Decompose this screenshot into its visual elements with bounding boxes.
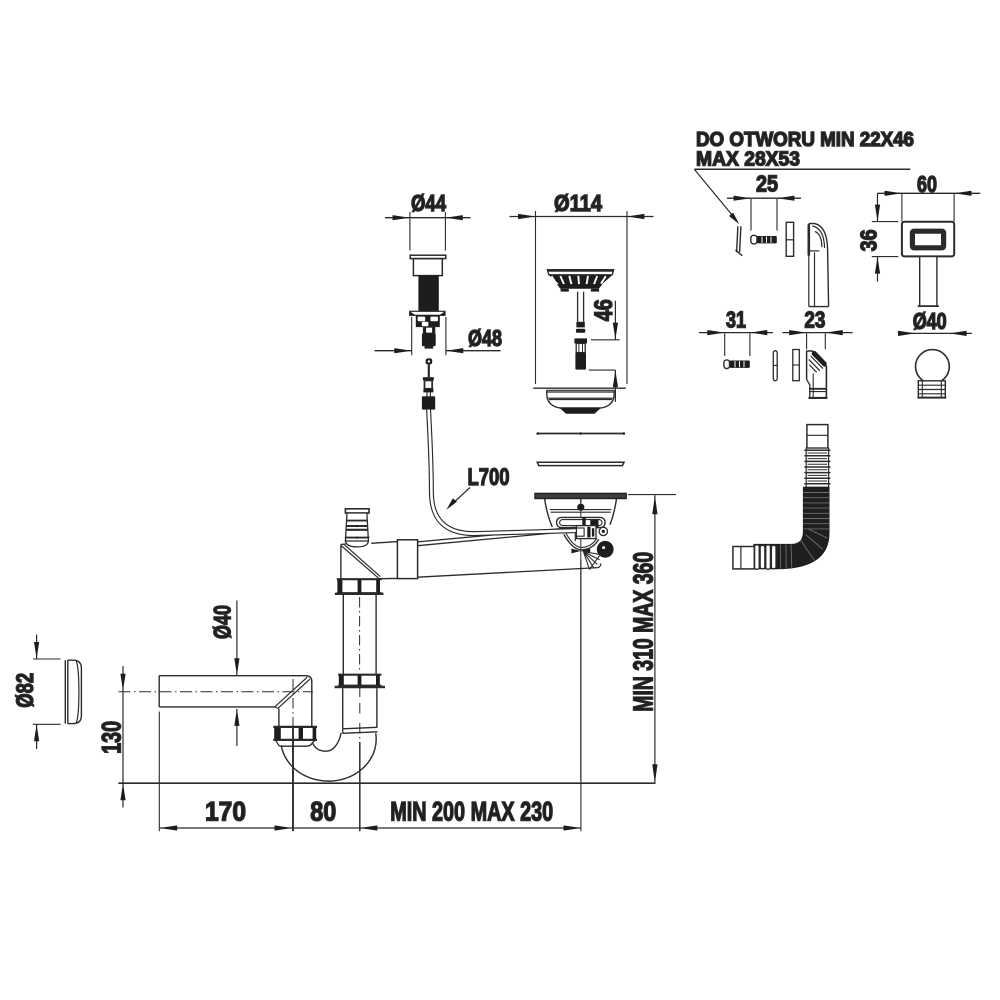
- gasket 1: [537, 432, 626, 435]
- compression nut lower: [335, 675, 385, 687]
- fixing plate small: [735, 226, 742, 256]
- trap inlet nut: [273, 727, 317, 746]
- washer plate 25: [786, 222, 793, 256]
- svg-text:31: 31: [726, 307, 746, 333]
- svg-text:MAX 28X53: MAX 28X53: [696, 149, 800, 171]
- dimension D82: [12, 635, 60, 750]
- riser tube: [343, 595, 376, 674]
- dimension D114: [510, 190, 654, 384]
- bottom dimension line: [160, 796, 581, 830]
- screw 25: [751, 235, 777, 244]
- svg-text:MIN 310 MAX 360: MIN 310 MAX 360: [627, 552, 658, 712]
- wall cap D82: [65, 660, 81, 723]
- dimension 23: [782, 307, 852, 350]
- svg-text:80: 80: [310, 796, 336, 826]
- overflow ball: [916, 350, 950, 398]
- overflow channel piece: [809, 223, 829, 306]
- dimension D40 right: [898, 308, 972, 336]
- u-trap left tube: [279, 681, 312, 727]
- svg-text:Ø40: Ø40: [913, 308, 947, 334]
- washer lens 31: [773, 351, 779, 381]
- dimension 60: [878, 171, 981, 222]
- outlet arm pipe: [371, 527, 601, 578]
- drain housing under sink: [545, 499, 617, 780]
- overflow cover pipe: [918, 257, 939, 307]
- svg-text:Ø44: Ø44: [411, 190, 446, 216]
- svg-text:36: 36: [856, 229, 882, 251]
- svg-text:Ø48: Ø48: [468, 325, 502, 351]
- u-trap right tube and bend: [281, 688, 377, 781]
- svg-text:23: 23: [804, 307, 825, 333]
- dimension 36: [856, 193, 899, 281]
- drain body exploded: [533, 388, 626, 414]
- svg-text:130: 130: [96, 721, 126, 754]
- dimension D40 left: [210, 601, 240, 747]
- cable L700: [429, 410, 576, 534]
- horizontal inlet pipe: [159, 676, 312, 709]
- overflow cover rectangle: [902, 222, 954, 257]
- flexible hose end fitting: [733, 547, 754, 569]
- svg-text:170: 170: [205, 796, 246, 826]
- dimension 31: [699, 307, 773, 356]
- svg-text:L700: L700: [468, 464, 510, 491]
- basket pin plug: [574, 338, 587, 369]
- flexible hose end ribs: [755, 545, 776, 569]
- note DO OTWORU: [694, 129, 914, 224]
- elbow connector 45deg: [807, 351, 828, 399]
- gasket 2: [537, 462, 624, 465]
- pipe centerline: [119, 679, 314, 726]
- svg-text:Ø40: Ø40: [210, 605, 237, 639]
- washer plate 23: [793, 350, 800, 381]
- strainer basket: [547, 270, 613, 333]
- sink flange mounted: [535, 493, 626, 498]
- dimension 130: [96, 666, 126, 808]
- floor reference line: [118, 782, 655, 784]
- svg-text:46: 46: [590, 299, 618, 321]
- dimension D48: [375, 317, 503, 355]
- flexible hose bellows: [804, 448, 830, 487]
- cable pull rod fittings: [422, 358, 435, 409]
- dimension 25: [727, 171, 801, 231]
- extension lines bottom: [159, 560, 581, 831]
- compression nut upper: [335, 579, 384, 594]
- flexible hose dark elbow: [754, 487, 829, 569]
- angled joint riser top: [341, 544, 380, 579]
- label L700 with leader: [446, 464, 509, 510]
- dimension 46: [589, 299, 620, 402]
- screw 31: [724, 360, 750, 369]
- dishwasher inlet port: [345, 509, 369, 547]
- dimension D44: [385, 190, 471, 251]
- dimension MIN 310 MAX 360: [627, 495, 676, 784]
- svg-text:Ø82: Ø82: [12, 673, 39, 708]
- svg-text:Ø114: Ø114: [554, 190, 602, 216]
- svg-text:MIN 200 MAX 230: MIN 200 MAX 230: [390, 796, 553, 826]
- svg-text:25: 25: [756, 171, 778, 197]
- pop-up knob assembly: [410, 255, 446, 348]
- flexible hose top fitting: [807, 425, 828, 449]
